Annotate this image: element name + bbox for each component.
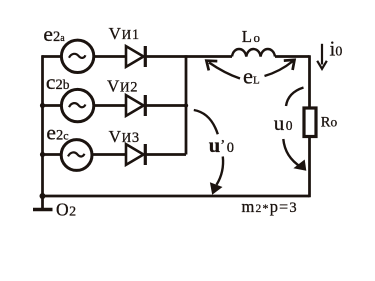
svg-text:Lo: Lo: [242, 27, 260, 46]
svg-text:u’0: u’0: [209, 135, 234, 157]
svg-text:e2a: e2a: [43, 22, 65, 46]
svg-text:eL: eL: [243, 64, 260, 89]
svg-text:VИ3: VИ3: [109, 127, 140, 146]
svg-text:O2: O2: [56, 199, 76, 219]
svg-text:e2c: e2c: [46, 120, 68, 144]
svg-text:VИ1: VИ1: [109, 24, 140, 43]
svg-text:VИ2: VИ2: [107, 76, 138, 95]
svg-text:c2b: c2b: [46, 70, 70, 94]
svg-text:u0: u0: [274, 111, 293, 135]
svg-text:Ro: Ro: [321, 114, 338, 130]
svg-text:m2*p=3: m2*p=3: [242, 197, 298, 216]
svg-text:i0: i0: [330, 37, 343, 61]
